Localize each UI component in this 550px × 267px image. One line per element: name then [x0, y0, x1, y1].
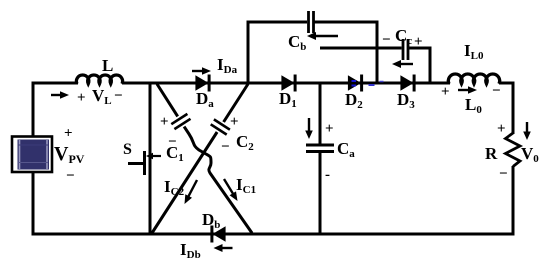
svg-text:−: − [382, 32, 391, 48]
svg-text:+: + [64, 126, 73, 142]
svg-text:IC1: IC1 [236, 175, 256, 196]
arrow I_C2 [188, 180, 197, 198]
diode Db [212, 226, 225, 242]
svg-text:Cb: Cb [288, 32, 306, 53]
svg-text:+: + [325, 121, 334, 137]
wire: top horizontal left of L [32, 82, 79, 85]
svg-text:C1: C1 [166, 143, 184, 164]
diode D1 [281, 75, 294, 91]
capacitor C2 [214, 119, 230, 129]
svg-text:C2: C2 [236, 132, 254, 153]
svg-text:Da: Da [196, 89, 214, 110]
wire: right vertical above R [512, 83, 515, 134]
svg-text:R: R [485, 144, 498, 163]
wire: diagonal C1 branch (T1 to B2) with crossover hop [157, 84, 252, 233]
wire: diagonal C2 branch (T2 to B1) [152, 84, 248, 233]
svg-text:IDa: IDa [217, 55, 238, 76]
capacitor C1 [171, 114, 187, 124]
capacitor Cc [402, 39, 405, 60]
inductor L [76, 75, 122, 84]
arrow I_Da [192, 70, 204, 72]
svg-text:D2: D2 [345, 90, 363, 111]
svg-text:D3: D3 [397, 90, 415, 111]
wire: top right corner [499, 82, 515, 85]
svg-text:IDb: IDb [180, 240, 201, 261]
inductor L0 [448, 74, 499, 84]
svg-text:VPV: VPV [54, 143, 85, 166]
wire: left vertical [32, 83, 35, 234]
arrow: Cc current left [399, 63, 413, 65]
wire: bottom horizontal [32, 233, 515, 236]
diode D2 [348, 75, 361, 91]
svg-text:Ca: Ca [337, 139, 355, 160]
arrow: Ca current down [308, 118, 310, 133]
PV source V_PV [12, 137, 52, 173]
svg-text:IL0: IL0 [464, 41, 484, 62]
svg-text:+: + [160, 114, 169, 130]
svg-text:+: + [77, 90, 86, 106]
svg-text:+: + [414, 34, 423, 50]
svg-text:L0: L0 [465, 95, 482, 116]
diode Da [195, 75, 208, 91]
svg-text:L: L [102, 56, 113, 75]
diode D3 [400, 75, 413, 91]
svg-text:+: + [441, 84, 450, 100]
wire: switch branch vertical [149, 83, 152, 234]
svg-text:+: + [497, 121, 506, 137]
wire: Ca branch vertical [319, 83, 322, 234]
svg-text:−: − [221, 139, 230, 155]
capacitor Ca [306, 144, 334, 147]
svg-text:−: − [492, 83, 501, 99]
svg-text:D1: D1 [279, 89, 297, 110]
svg-text:IC2: IC2 [164, 177, 185, 198]
transistor S (switch symbol) [123, 141, 161, 175]
svg-text:V0: V0 [521, 144, 539, 165]
svg-text:−: − [66, 168, 75, 184]
svg-text:−: − [499, 166, 508, 182]
svg-text:Cc: Cc [395, 26, 412, 47]
wire: Cc loop [320, 48, 430, 83]
resistor R [506, 133, 521, 167]
svg-text:−: − [114, 88, 123, 104]
svg-text:VL: VL [92, 86, 112, 107]
svg-text:Db: Db [202, 210, 220, 231]
arrow I_Db [221, 247, 233, 249]
arrow: input current [51, 94, 62, 96]
wire: right vertical below R [512, 166, 515, 234]
blue artifact near D2 [352, 80, 357, 82]
arrow: Cb current left [314, 35, 338, 37]
wire: top horizontal L to L0 [122, 82, 450, 85]
arrow I_C1 [224, 179, 234, 195]
arrow V0 down [526, 122, 528, 134]
wire: Cb loop [248, 22, 377, 84]
svg-text:-: - [325, 167, 330, 183]
svg-text:+: + [230, 114, 239, 130]
capacitor Cb [307, 11, 310, 33]
svg-text:S: S [123, 141, 132, 158]
